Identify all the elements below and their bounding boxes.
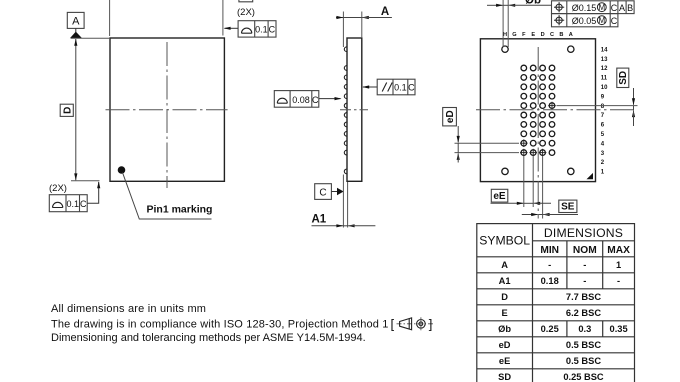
svg-text:NOM: NOM (573, 245, 597, 256)
svg-text:C: C (80, 199, 87, 209)
dimension A1 line with arrows (312, 224, 376, 227)
table data rows (498, 260, 628, 382)
svg-text:9: 9 (601, 94, 605, 100)
svg-text:12: 12 (601, 66, 608, 72)
boxed label eD (rotated) (443, 108, 457, 126)
svg-text:SYMBOL: SYMBOL (479, 234, 530, 248)
extension line of right edge upward (to cropped dimension) (222, 0, 224, 36)
svg-text:0.5 BSC: 0.5 BSC (566, 340, 601, 350)
svg-text:A: A (619, 3, 625, 13)
svg-text:0.08: 0.08 (292, 95, 310, 105)
svg-text:SD: SD (498, 372, 511, 382)
svg-text:-: - (617, 276, 620, 286)
position FCF row 1 (Ø0.15 M | C | A | B) (552, 1, 635, 14)
svg-text:M: M (598, 3, 605, 12)
svg-text:C: C (550, 32, 554, 38)
svg-text:C: C (408, 83, 415, 93)
partial FCF box cut at top edge (239, 0, 253, 2)
svg-text:A: A (381, 6, 389, 18)
A1 corner chamfer triangle (587, 173, 594, 179)
top extension line for D dimension (71, 37, 110, 39)
table header texts (479, 226, 630, 256)
svg-text:0.1: 0.1 (66, 199, 79, 209)
svg-text:D: D (501, 292, 508, 302)
position FCF row 2 (Ø0.05 M | C) (552, 14, 618, 27)
svg-text:C: C (269, 25, 276, 35)
boxed label SE (559, 200, 577, 213)
svg-text:4: 4 (601, 141, 605, 147)
datum C flag (315, 184, 344, 200)
svg-text:A: A (72, 16, 80, 28)
corner circles (rows 14 and 1, columns H and A) (502, 46, 574, 175)
svg-text:6: 6 (601, 123, 605, 129)
bottom view package outline (480, 39, 595, 182)
pin1 leader line (123, 173, 212, 220)
eD extension lines from balls F4 and F3 (455, 142, 520, 144)
svg-text:0.1: 0.1 (394, 83, 407, 93)
svg-text:B: B (559, 32, 563, 38)
datum ball crosshairs (C8, F4, F3, E3, D3) (520, 102, 556, 157)
svg-text:0.1: 0.1 (255, 25, 268, 35)
svg-text:0.25 BSC: 0.25 BSC (563, 372, 604, 382)
eE dimension line with arrows (491, 202, 552, 205)
svg-text:eE: eE (493, 191, 506, 202)
svg-text:SE: SE (561, 202, 575, 213)
bottom extension line for D dimension (71, 180, 100, 182)
svg-text:8: 8 (601, 104, 605, 110)
svg-text:Dimensioning and tolerancing m: Dimensioning and tolerancing methods per… (51, 332, 366, 344)
svg-text:0.3: 0.3 (578, 324, 591, 334)
dimension A line with arrows (336, 16, 392, 19)
SD dimension line with arrows (632, 88, 635, 126)
svg-text:Pin1 marking: Pin1 marking (147, 204, 213, 216)
svg-text:7.7 BSC: 7.7 BSC (566, 292, 601, 302)
boxed label eE (491, 189, 508, 202)
svg-text:C: C (611, 16, 618, 26)
svg-text:6.2 BSC: 6.2 BSC (566, 308, 601, 318)
front view horizontal centerline (106, 109, 228, 111)
svg-text:A1: A1 (312, 214, 327, 226)
svg-text:2: 2 (601, 160, 605, 166)
svg-text:(2X): (2X) (49, 183, 67, 194)
svg-text:0.5 BSC: 0.5 BSC (566, 356, 601, 366)
SD extension line from ball C8 (557, 105, 638, 107)
bottom view vertical centerline (537, 47, 539, 219)
profile-of-surface FCF bottom-left (0.1 C) (49, 195, 87, 212)
eD dimension line with arrows (457, 126, 460, 163)
parallelism FCF (0.1 C) (377, 79, 415, 95)
svg-text:11: 11 (601, 76, 608, 82)
dimension D line with arrows (74, 39, 77, 181)
svg-text:M: M (598, 16, 605, 25)
bottom view row numbers 14..1 (601, 47, 608, 175)
bottom view column letters H G F E D C B A (503, 32, 573, 38)
svg-text:The drawing is in compliance w: The drawing is in compliance with ISO 12… (51, 319, 388, 331)
svg-text:B: B (627, 3, 633, 13)
solder ball grid 4 cols x 10 rows (521, 65, 555, 155)
seating plane line bottom segment (A1 left extension) (342, 175, 344, 228)
svg-text:Øb: Øb (498, 324, 511, 334)
svg-text:Ø0.05: Ø0.05 (572, 16, 597, 26)
extension line of left edge upward (to cropped dimension) (109, 0, 111, 36)
svg-text:1: 1 (601, 170, 605, 176)
svg-text:0.18: 0.18 (541, 276, 559, 286)
profile-of-surface FCF (0.08 C) (274, 91, 319, 108)
leader from bottom-left FCF to bottom extension line (87, 181, 100, 203)
svg-text:E: E (501, 308, 507, 318)
first angle projection symbol (391, 317, 435, 332)
boxed label SD (rotated) (617, 68, 629, 87)
boxed label D (rotated) (60, 104, 73, 116)
Øb dimension line with arrows (487, 4, 552, 7)
seating plane extension line (top segment) (342, 12, 344, 48)
svg-text:Ø0.15: Ø0.15 (572, 3, 597, 13)
svg-text:1: 1 (616, 260, 621, 270)
svg-text:eD: eD (445, 110, 456, 123)
svg-text:0.35: 0.35 (610, 324, 628, 334)
svg-text:14: 14 (601, 47, 608, 53)
svg-text:F: F (522, 32, 526, 38)
extension lines below ball columns F E D (523, 157, 525, 208)
svg-text:D: D (62, 107, 73, 114)
svg-text:-: - (583, 260, 586, 270)
svg-text:A: A (501, 260, 508, 270)
svg-text:G: G (512, 32, 516, 38)
package bottom surface extension line (A1 right extension) (347, 182, 349, 228)
pin1 marking dot (118, 166, 126, 174)
svg-text:-: - (548, 260, 551, 270)
svg-text:3: 3 (601, 151, 605, 157)
svg-text:D: D (541, 32, 545, 38)
dimensions table frame and grid (477, 224, 635, 382)
front view package body outline (110, 38, 224, 181)
SE dimension line with arrows (522, 213, 578, 216)
extension line of package top surface upward (361, 12, 363, 39)
svg-text:eD: eD (499, 340, 511, 350)
front view vertical centerline (166, 42, 168, 188)
svg-text:C: C (319, 188, 326, 199)
side view package body outline (347, 38, 362, 181)
svg-text:13: 13 (601, 57, 608, 63)
svg-text:-: - (583, 276, 586, 286)
svg-text:MIN: MIN (540, 245, 559, 256)
svg-text:A: A (569, 32, 573, 38)
svg-text:7: 7 (601, 113, 605, 119)
bottom view horizontal centerline (476, 109, 638, 111)
side view horizontal centerline (340, 109, 368, 111)
datum A flag (67, 12, 84, 38)
profile-of-surface FCF top-right (0.1 C) (238, 21, 276, 37)
svg-text:eE: eE (499, 356, 510, 366)
svg-text:C: C (611, 3, 618, 13)
svg-text:DIMENSIONS: DIMENSIONS (544, 226, 623, 240)
svg-text:SD: SD (618, 71, 629, 85)
svg-text:Øb: Øb (525, 0, 541, 7)
svg-text:A1: A1 (499, 276, 511, 286)
svg-text:10: 10 (601, 85, 608, 91)
leader from 0.08 FCF to ball seating side (319, 97, 342, 100)
svg-text:(2X): (2X) (237, 7, 255, 18)
Øb tangent extension lines from corner ball (502, 0, 504, 47)
leader from top-right FCF to right extension line (224, 27, 239, 30)
svg-text:0.25: 0.25 (541, 324, 559, 334)
svg-text:]: ] (429, 317, 433, 332)
svg-text:C: C (312, 95, 319, 105)
side view solder ball bumps (344, 47, 347, 174)
svg-text:5: 5 (601, 132, 605, 138)
leader from parallelism FCF to package right edge (362, 85, 377, 88)
svg-text:MAX: MAX (607, 245, 630, 256)
svg-text:All dimensions are in units mm: All dimensions are in units mm (51, 303, 206, 315)
svg-text:[: [ (391, 317, 395, 332)
svg-text:E: E (531, 32, 535, 38)
table column separators for MIN/NOM/MAX (567, 241, 603, 337)
